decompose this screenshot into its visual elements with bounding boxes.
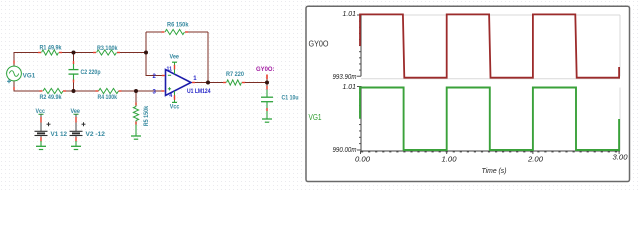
power label Vee — [71, 108, 81, 115]
panel 1 frame — [357, 15, 620, 79]
wire R6 rail — [146, 31, 208, 33]
svg-text:Time (s): Time (s) — [482, 166, 507, 175]
op-amp Vee power pin (top) — [172, 62, 177, 74]
R5 value label (vertical) — [143, 105, 150, 126]
x axis labels — [355, 153, 628, 164]
wire C1 top lead — [266, 83, 268, 98]
svg-text:1.00: 1.00 — [442, 155, 458, 164]
wire C2 top lead — [73, 53, 75, 70]
R3 value label — [97, 45, 118, 52]
svg-text:0.00: 0.00 — [355, 155, 371, 164]
svg-text:R6 150k: R6 150k — [167, 22, 189, 29]
R6 value label — [167, 22, 189, 29]
battery V1 bottom pin — [40, 136, 41, 147]
svg-text:VG1: VG1 — [23, 73, 36, 80]
pin number 2 — [153, 74, 157, 80]
panel 2 y-axis labels — [333, 82, 357, 154]
R7 value label — [226, 71, 245, 78]
ground below R5 — [131, 136, 141, 139]
ground below C1 — [262, 119, 272, 122]
capacitor C1 — [261, 86, 273, 111]
node GY0O junction (R7/C1) — [265, 81, 269, 85]
op-amp Vcc label — [170, 104, 180, 111]
resistor R3 — [93, 50, 120, 55]
node label GY0O — [256, 66, 275, 73]
svg-text:R1 49.9k: R1 49.9k — [40, 44, 63, 51]
pin number 4 — [169, 93, 172, 99]
wire VG1 top to R1 — [14, 53, 40, 67]
wire VG1 bottom to R2 — [14, 81, 41, 91]
battery V2 value label — [86, 131, 106, 138]
pin number 3 — [153, 90, 157, 96]
svg-text:V2 -12: V2 -12 — [86, 131, 106, 138]
svg-text:C2 220p: C2 220p — [81, 69, 101, 76]
curve name VG1 — [309, 112, 322, 122]
svg-text:R4 100k: R4 100k — [98, 94, 118, 101]
op-amp designator U1 LM124 — [187, 88, 211, 95]
wire R7 to node GY0O — [244, 82, 268, 84]
wire R1 to node A — [61, 52, 95, 54]
svg-text:R3 100k: R3 100k — [97, 45, 118, 52]
output pin GY0O — [266, 75, 268, 82]
curve name GY0O — [309, 38, 329, 48]
battery V2 plus mark — [82, 122, 86, 126]
wire node B vertical (R6 left / to pin 2) — [146, 32, 164, 76]
capacitor C2 — [69, 61, 79, 83]
wire op-amp output to R7 — [191, 82, 225, 84]
resistor R6 — [162, 29, 189, 34]
wire R2 to node C — [65, 90, 98, 92]
C1 value label — [282, 95, 299, 102]
op-amp input polarity marks — [168, 75, 171, 90]
GY0O trace — [360, 14, 619, 77]
battery V2 bottom pin — [75, 136, 76, 147]
svg-text:Vee: Vee — [170, 54, 180, 61]
ground below V1 — [36, 146, 46, 149]
op-amp Vcc power pin (bottom) — [172, 91, 177, 103]
svg-text:1.01: 1.01 — [343, 82, 357, 91]
svg-text:993.90m: 993.90m — [333, 74, 357, 81]
svg-text:1.01: 1.01 — [343, 9, 357, 18]
wire R5 bottom lead — [135, 121, 137, 137]
VG1 plus mark — [7, 79, 11, 83]
node C junction (R2/R4/C2) — [72, 89, 76, 93]
VG1 trace — [360, 88, 619, 151]
panel 1 y-axis labels — [333, 9, 357, 81]
wire R4 to node D — [120, 90, 136, 92]
svg-text:R7 220: R7 220 — [226, 71, 245, 78]
panel 2 frame — [357, 86, 620, 154]
pin number 11 — [167, 67, 173, 73]
svg-text:R5 150k: R5 150k — [143, 105, 150, 126]
svg-text:GY0O:: GY0O: — [256, 66, 275, 73]
x axis title Time (s) — [482, 166, 507, 175]
R1 value label — [40, 44, 63, 51]
R2 value label — [40, 94, 63, 101]
svg-text:GY0O: GY0O — [309, 38, 329, 48]
svg-text:2.00: 2.00 — [527, 155, 544, 164]
node B junction (R3/R6/pin2) — [144, 51, 148, 55]
R4 value label — [98, 94, 118, 101]
plot window — [306, 6, 630, 181]
generator VG1 — [7, 61, 22, 91]
svg-text:R2 49.9k: R2 49.9k — [40, 94, 63, 101]
wire C1 bottom lead — [266, 102, 268, 120]
resistor R7 — [223, 80, 245, 85]
svg-text:4: 4 — [169, 93, 172, 99]
output junction (R6/out/R7) — [206, 81, 210, 85]
svg-text:VG1: VG1 — [309, 112, 322, 122]
node A junction (R1/R3/C2) — [72, 51, 76, 55]
grid dot background — [0, 0, 640, 190]
battery V2 body — [70, 131, 83, 135]
op-amp U1 — [161, 70, 195, 96]
battery V1 value label — [51, 131, 68, 138]
svg-text:3.00: 3.00 — [613, 153, 629, 162]
battery V1 top pin — [39, 114, 44, 131]
battery V1 plus mark — [47, 122, 51, 126]
svg-text:11: 11 — [167, 67, 173, 73]
svg-text:V1 12: V1 12 — [51, 131, 68, 138]
C2 value label — [81, 69, 101, 76]
svg-text:C1 10u: C1 10u — [282, 95, 299, 102]
wire R3 to node B — [119, 52, 147, 54]
svg-text:990.00m: 990.00m — [333, 147, 357, 154]
resistor R4 — [96, 88, 122, 93]
pin number 1 — [193, 76, 197, 82]
ground below V2 — [71, 146, 81, 149]
battery V2 top pin — [74, 114, 79, 131]
svg-text:U1 LM124: U1 LM124 — [187, 88, 211, 95]
svg-text:Vcc: Vcc — [170, 104, 180, 111]
power label Vcc — [36, 108, 46, 115]
wire C2 bottom lead — [73, 74, 75, 91]
wire R6 right vertical to output — [207, 32, 209, 83]
resistor R1 — [38, 50, 62, 55]
wire R5 top lead — [135, 91, 137, 107]
resistor R5 — [133, 103, 138, 125]
resistor R2 — [40, 88, 67, 93]
op-amp Vee label — [170, 54, 180, 61]
node D junction (R4/R5/pin3) — [134, 89, 138, 93]
battery V1 body — [35, 131, 48, 135]
VG1 label — [23, 73, 36, 80]
wire node D to op-amp pin 3 — [136, 90, 164, 92]
